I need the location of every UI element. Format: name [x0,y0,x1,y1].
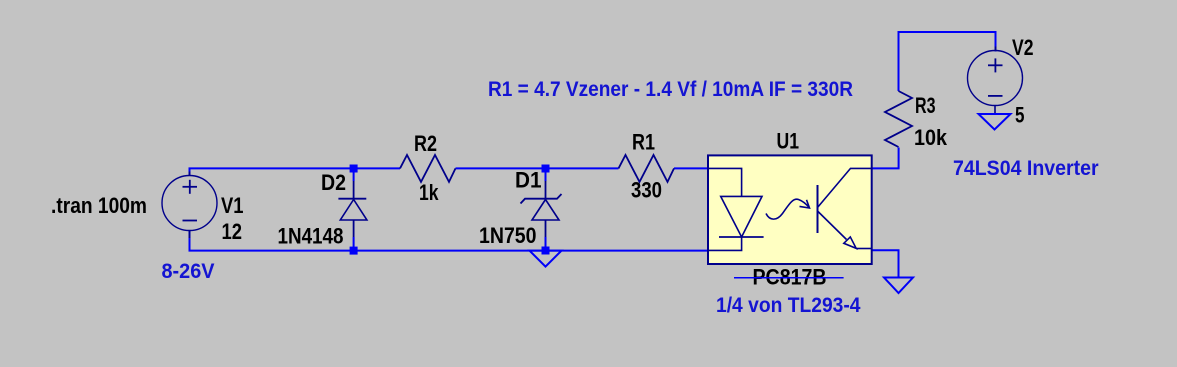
label R2 [414,131,437,156]
svg-text:10k: 10k [914,125,948,150]
comment R1 formula [488,78,853,101]
comment 1/4 von TL293-4 [716,294,861,317]
value 12 [222,219,243,244]
svg-text:.tran 100m: .tran 100m [51,193,147,218]
junction D2 top [350,165,358,173]
wire U1 collector to R3 bottom [872,148,899,169]
optocoupler U1 body [708,155,872,264]
svg-text:V2: V2 [1012,35,1034,60]
U1 LED [719,196,764,237]
wire R1 to U1 [674,167,708,169]
U1 LED anode pin wire [708,168,742,196]
junction D1 bottom [542,247,550,255]
label U1 [777,128,800,153]
ground under U1 emitter [884,278,913,294]
svg-text:U1: U1 [777,128,800,153]
value 1k [419,180,439,205]
label R3 [915,93,936,118]
svg-text:D2: D2 [321,170,346,195]
svg-text:1k: 1k [419,180,439,205]
label V1 [221,193,244,218]
wire bottom rail D1 to U1 [546,250,709,252]
resistor R2 [400,155,456,182]
zener diode D1 [521,170,562,251]
wire V1 bottom to D2 bottom [190,231,354,251]
svg-text:12: 12 [222,219,243,244]
comment 74LS04 Inverter [953,157,1099,180]
svg-text:D1: D1 [515,168,542,193]
U1 LED cathode pin wire [708,237,742,250]
ground under V2 [979,114,1011,130]
svg-text:R2: R2 [414,131,437,156]
diode D2 [338,170,367,251]
value 330 [631,178,662,203]
value PC817B [753,265,827,290]
svg-text:1N4148: 1N4148 [278,224,344,249]
U1 phototransistor emitter [818,211,872,249]
ground under D1 [530,251,562,267]
U1 phototransistor collector [818,168,872,207]
value 5 [1015,103,1025,128]
svg-text:74LS04 Inverter: 74LS04 Inverter [953,157,1099,180]
svg-text:V1: V1 [221,193,244,218]
wire bottom rail D2 to D1 [354,250,546,252]
resistor R1 [619,155,675,182]
svg-text:R1: R1 [632,130,655,155]
strike line through PC817B [734,277,844,279]
junction D2 bottom [350,247,358,255]
value 1N4148 [278,224,344,249]
U1 phototransistor base [817,185,819,233]
svg-text:330: 330 [631,178,662,203]
wire R2 to D1 [456,167,546,169]
label D2 [321,170,346,195]
svg-text:1N750: 1N750 [479,223,537,248]
comment 8-26V [162,260,215,283]
svg-text:R3: R3 [915,93,936,118]
svg-text:1/4 von TL293-4: 1/4 von TL293-4 [716,294,861,317]
voltage source V2 [968,47,1023,115]
label V2 [1012,35,1034,60]
value 10k [914,125,948,150]
U1 optical coupling arrow [766,199,810,219]
wire D2 to R2 [354,167,400,169]
wire top rail V1 to D2 [190,168,354,175]
svg-text:8-26V: 8-26V [162,260,215,283]
wire D1 to R1 [546,167,619,169]
svg-text:R1 = 4.7 Vzener - 1.4 Vf / 10m: R1 = 4.7 Vzener - 1.4 Vf / 10mA IF = 330… [488,78,853,101]
label R1 [632,130,655,155]
junction D1 top [542,165,550,173]
value 1N750 [479,223,537,248]
spice directive .tran 100m [51,193,147,218]
label D1 [515,168,542,193]
voltage source V1 [162,172,217,239]
wire U1 emitter to ground [872,250,899,277]
svg-text:5: 5 [1015,103,1025,128]
resistor R3 [885,91,912,147]
wire R3 top to V2 top [899,32,996,91]
